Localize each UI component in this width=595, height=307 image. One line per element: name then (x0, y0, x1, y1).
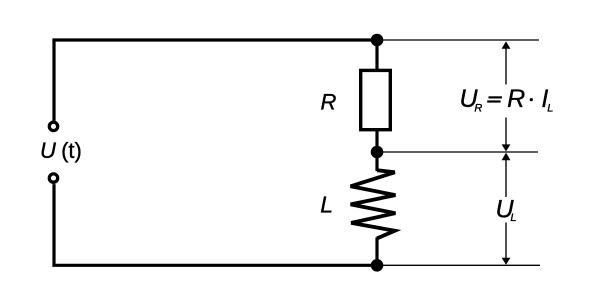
extension line top (node A level) (377, 39, 539, 41)
extension line middle (node B level) (377, 151, 538, 153)
node A junction dot (371, 34, 384, 47)
source label U (t) (40, 138, 82, 163)
dimension line UL lower segment (505, 223, 507, 261)
dimension arrowhead up below node B level (502, 153, 511, 161)
wire top-left branch (source to node A) (54, 40, 377, 121)
svg-text:R: R (507, 85, 525, 113)
wire resistor to node B (375, 131, 378, 153)
wire inductor to node C (375, 238, 378, 266)
wire node A to resistor (375, 40, 378, 71)
dimension line UR lower segment (505, 118, 507, 148)
dimension arrowhead down at node B level (502, 144, 511, 151)
svg-text:U: U (40, 138, 56, 163)
svg-text:L: L (510, 212, 516, 224)
svg-text:L: L (320, 191, 333, 217)
label UL (496, 196, 517, 225)
node C junction dot (371, 259, 384, 272)
dimension arrowhead down at node C level (502, 258, 511, 265)
terminal circle bottom (49, 174, 57, 182)
dimension arrowhead up at node A level (502, 41, 511, 49)
node B junction dot (371, 146, 384, 159)
svg-text:R: R (474, 103, 482, 115)
svg-text:L: L (547, 102, 553, 114)
wire bottom-left branch (source to node C) (54, 184, 377, 265)
inductor L zigzag (351, 170, 396, 238)
formula UR = R * IL (460, 85, 554, 115)
terminal circle top (49, 122, 57, 130)
extension line bottom (node C level) (377, 264, 540, 266)
dimension line UR upper segment (505, 46, 507, 85)
svg-text:(t): (t) (61, 138, 82, 163)
svg-text:R: R (321, 89, 337, 114)
resistor R (361, 70, 391, 129)
dimension line UL upper segment (505, 158, 507, 197)
wire node B to inductor (375, 152, 378, 171)
